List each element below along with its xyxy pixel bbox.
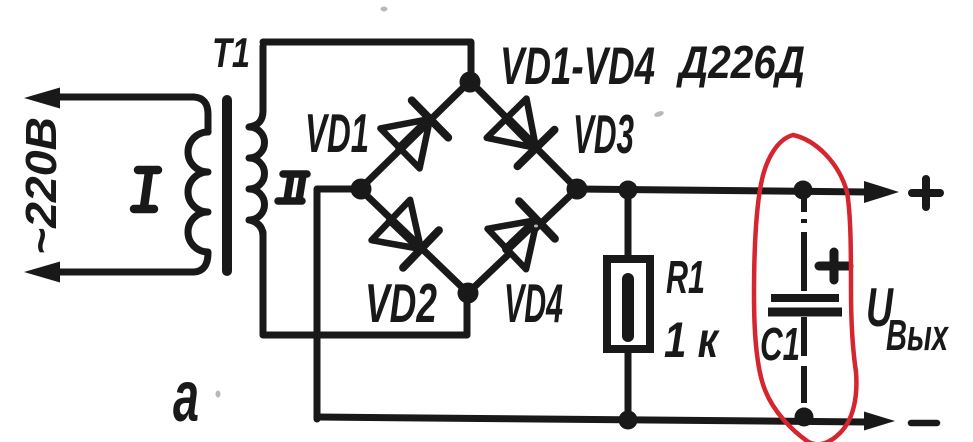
arrowhead: minus output bbox=[864, 412, 895, 431]
label I primary bbox=[134, 170, 158, 209]
capacitor C1 bbox=[768, 194, 842, 403]
label plus output bbox=[912, 179, 940, 207]
svg-text:а: а bbox=[173, 357, 199, 437]
diode VD4 bbox=[488, 201, 555, 269]
svg-text:VD3: VD3 bbox=[573, 103, 634, 165]
bridge edge wire A-L bbox=[360, 81, 470, 189]
label minus output bbox=[911, 420, 937, 427]
svg-text:VD2: VD2 bbox=[365, 272, 437, 334]
resistor R1 body bbox=[607, 259, 650, 349]
svg-text:C1: C1 bbox=[760, 318, 800, 370]
wire: top rail plus output bbox=[577, 189, 868, 192]
svg-text:Вых: Вых bbox=[886, 311, 949, 360]
wire: bridge left vertex to bottom rail bbox=[317, 189, 360, 419]
diode VD3 bbox=[487, 99, 555, 167]
transformer T1 core bbox=[222, 100, 232, 271]
diode VD1 bbox=[380, 100, 448, 168]
capacitor C1 polarity plus bbox=[819, 252, 849, 280]
svg-text:Д226Д: Д226Д bbox=[675, 36, 805, 88]
node: C1 top junction bbox=[794, 181, 813, 200]
node: R1 top junction bbox=[619, 181, 638, 200]
svg-text:R1: R1 bbox=[666, 251, 705, 303]
svg-text:VD4: VD4 bbox=[504, 272, 563, 334]
arrowhead: mains bottom left arrow bbox=[24, 262, 60, 283]
diode VD2 bbox=[372, 200, 439, 268]
label II secondary bbox=[278, 174, 307, 201]
wire: secondary top to bridge top vertex bbox=[263, 42, 471, 78]
wire: mains bottom lead with arrow bbox=[40, 253, 208, 272]
node: bridge right junction bbox=[567, 179, 588, 200]
svg-text:VD1: VD1 bbox=[305, 102, 369, 164]
transformer T1 secondary winding II bbox=[249, 46, 265, 236]
bridge edge wire A-R bbox=[470, 81, 577, 189]
wire: mains top lead with arrow bbox=[40, 97, 208, 132]
svg-text:T1: T1 bbox=[212, 29, 250, 76]
node: C1 bottom junction bbox=[795, 408, 814, 427]
resistor R1 bottom lead bbox=[625, 349, 632, 420]
arrowhead: plus output bbox=[864, 181, 899, 203]
svg-text:1 к: 1 к bbox=[664, 312, 720, 368]
resistor R1 top lead bbox=[625, 190, 632, 259]
red highlight ellipse around C1 bbox=[754, 135, 856, 442]
svg-text:VD1-VD4: VD1-VD4 bbox=[500, 37, 655, 96]
wire: secondary bottom to bridge bottom vertex bbox=[263, 232, 467, 335]
node: R1 bottom junction bbox=[619, 411, 638, 430]
node: bridge left junction bbox=[351, 179, 372, 200]
node: bridge top junction bbox=[460, 72, 481, 93]
scan speckles bbox=[216, 7, 665, 398]
wire: bottom rail to minus output bbox=[317, 417, 866, 422]
arrowhead: mains top left arrow bbox=[24, 88, 60, 109]
bridge edge wire L-B bbox=[360, 189, 468, 293]
svg-text:~220В: ~220В bbox=[17, 117, 66, 255]
node: bridge bottom junction bbox=[458, 283, 479, 304]
transformer T1 primary winding I bbox=[188, 132, 208, 252]
bridge edge wire B-R bbox=[468, 189, 577, 293]
